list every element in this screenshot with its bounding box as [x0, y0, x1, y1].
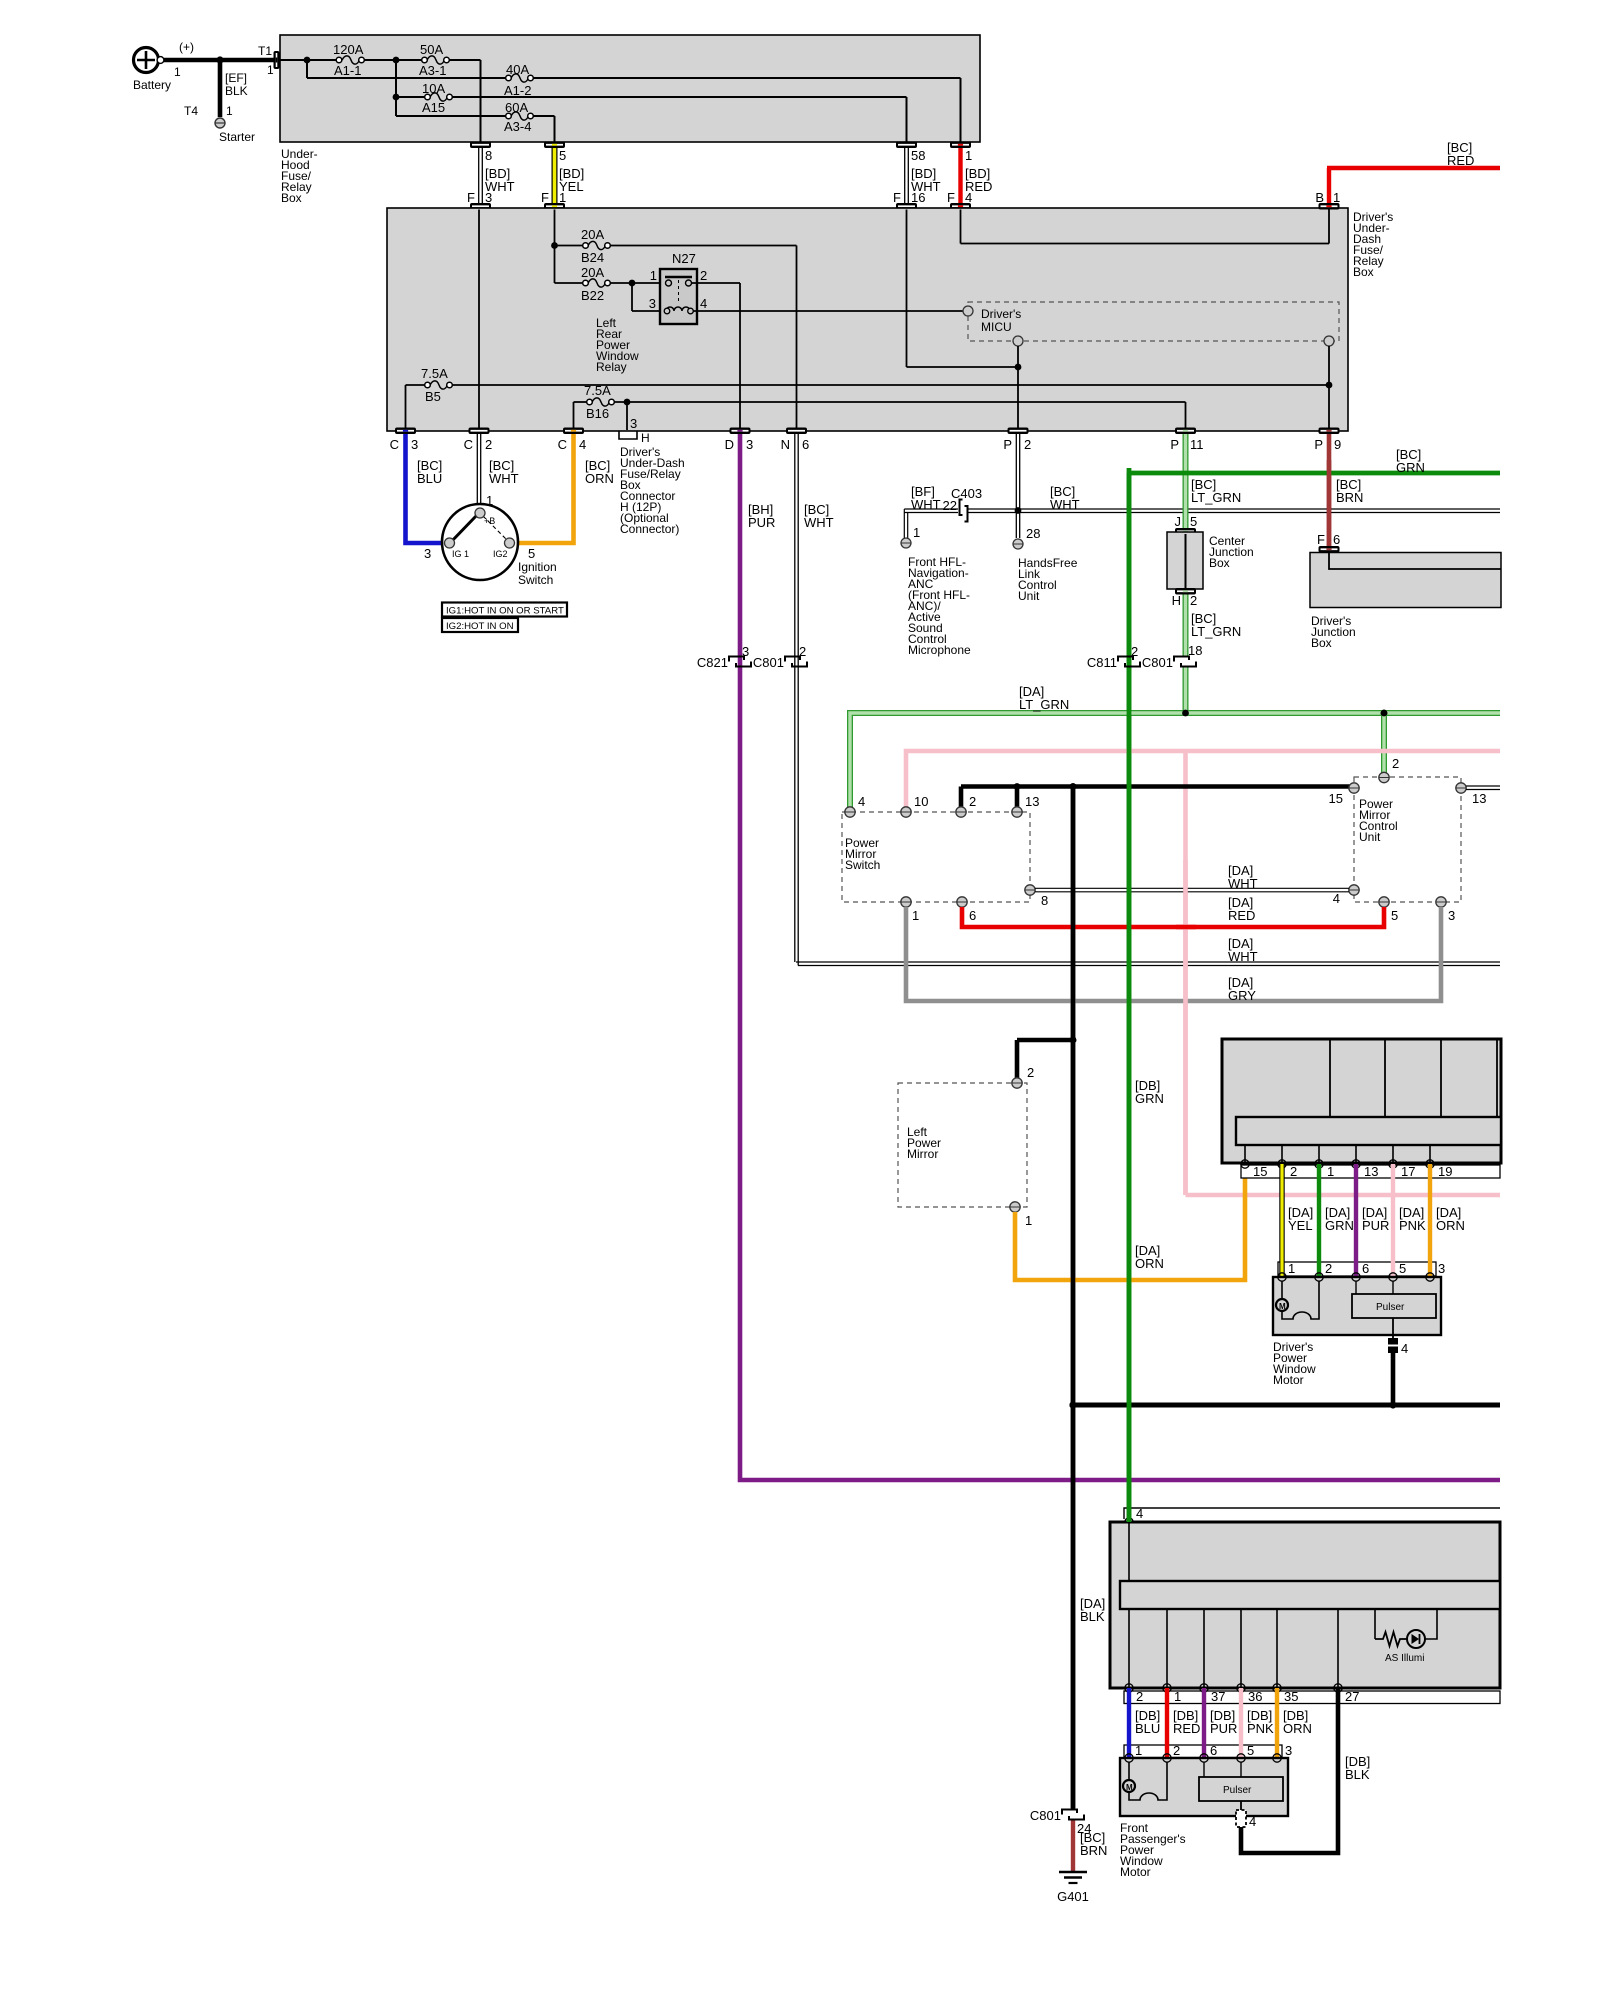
wire [DB] ORN door35 to motor3 [1277, 1688, 1312, 1758]
wire [BC] WHT to ignition +B [477, 434, 518, 508]
wire [DA] LT_GRN C801 to junction [1183, 667, 1189, 713]
wire [DA] LT_GRN horizontal [850, 684, 1500, 807]
svg-text:1: 1 [913, 525, 920, 540]
driver's door inner connector bar [1236, 1117, 1501, 1164]
svg-text:PUR: PUR [1362, 1218, 1389, 1233]
wire [DA] BLK label [1080, 1596, 1105, 1624]
svg-text:2: 2 [1325, 1261, 1332, 1276]
node B16-H3 junction [624, 399, 631, 406]
svg-text:C801: C801 [753, 655, 784, 670]
pin 2 relay [686, 280, 692, 286]
wire [DB] RED door1 to motor2 [1167, 1688, 1200, 1758]
wire BLK ground bus horizontal [1073, 1403, 1500, 1408]
connector 1 under-hood box bottom [950, 142, 971, 149]
wire main feed row y=60 [280, 60, 481, 143]
svg-text:2: 2 [1190, 593, 1197, 608]
pin 3 passenger motor [1273, 1754, 1281, 1762]
connector H optional 12P pin 3 [619, 416, 685, 536]
svg-text:P: P [1170, 437, 1179, 452]
svg-text:2: 2 [1136, 1689, 1143, 1704]
pin IG1 ignition [445, 538, 455, 548]
wire [BD] WHT 8 to F3 [467, 148, 515, 205]
pin 35 passenger door [1273, 1684, 1299, 1704]
svg-text:10: 10 [914, 794, 928, 809]
svg-text:H: H [1172, 593, 1181, 608]
svg-text:1: 1 [1288, 1261, 1295, 1276]
svg-text:LT_GRN: LT_GRN [1019, 697, 1069, 712]
connector 4 passenger motor dashed [1236, 1801, 1256, 1829]
node P2 wht junction [1015, 507, 1022, 514]
node B24 feed junction [551, 242, 558, 249]
svg-text:6: 6 [802, 437, 809, 452]
motor M symbol driver [1276, 1281, 1319, 1319]
Front passenger door harness box [1110, 1522, 1500, 1688]
pin 3 relay [664, 308, 670, 314]
svg-text:Box: Box [1311, 636, 1332, 650]
fuse 60A A3-4 [504, 100, 533, 134]
svg-text:WHT: WHT [804, 515, 834, 530]
driver's motor connector pin numbers [1288, 1261, 1445, 1276]
Driver's Junction Box [1310, 553, 1501, 651]
wire [BC] WHT C403 to right [968, 509, 1500, 513]
svg-text:F: F [467, 190, 475, 205]
svg-text:M: M [1126, 1783, 1133, 1792]
wire [BC] BRN P9 to F6 [1329, 434, 1363, 546]
Driver's door harness box [1222, 1039, 1501, 1163]
svg-text:YEL: YEL [1288, 1218, 1313, 1233]
svg-text:35: 35 [1284, 1689, 1298, 1704]
svg-text:4: 4 [965, 190, 972, 205]
svg-text:H: H [641, 431, 650, 445]
pin 5 driver's motor [1389, 1273, 1397, 1281]
svg-text:C: C [390, 437, 399, 452]
svg-text:MICU: MICU [981, 320, 1012, 334]
pin 1 driver's door [1315, 1160, 1334, 1179]
svg-text:15: 15 [1329, 791, 1343, 806]
pin 15 control unit [1329, 783, 1360, 806]
svg-text:6: 6 [1362, 1261, 1369, 1276]
svg-text:1: 1 [1333, 190, 1340, 205]
svg-text:3: 3 [1438, 1261, 1445, 1276]
svg-text:1: 1 [912, 908, 919, 923]
motor M symbol passenger [1123, 1762, 1167, 1800]
connector 4 driver's motor [1387, 1318, 1408, 1356]
pin 2 left mirror [1012, 1065, 1034, 1088]
pin 2 passenger door [1125, 1684, 1143, 1704]
svg-text:13: 13 [1364, 1164, 1378, 1179]
wire [DA] GRN door1 to motor2 [1319, 1164, 1354, 1277]
svg-text:22: 22 [943, 498, 957, 513]
svg-text:4: 4 [858, 794, 865, 809]
pin 4 control unit [1333, 885, 1359, 906]
svg-text:5: 5 [1247, 1743, 1254, 1758]
svg-text:2: 2 [1027, 1065, 1034, 1080]
fuse 50A A3-1 [419, 42, 449, 78]
svg-text:1: 1 [174, 65, 181, 79]
wire [BC] BRN to ground [1073, 1820, 1107, 1871]
pin 3 control unit [1436, 897, 1455, 923]
svg-text:A15: A15 [422, 100, 445, 115]
svg-text:13: 13 [1472, 791, 1486, 806]
svg-text:5: 5 [1399, 1261, 1406, 1276]
svg-text:BLK: BLK [225, 84, 248, 98]
passenger door label strip top [1124, 1506, 1500, 1521]
svg-text:C801: C801 [1142, 655, 1173, 670]
connector F3 [470, 203, 491, 210]
Power Mirror Switch dashed box [842, 812, 1030, 902]
wire F1 to fuse B24/B22 feed [554, 210, 556, 284]
svg-text:Mirror: Mirror [907, 1147, 938, 1161]
Power Mirror Control Unit dashed box [1354, 777, 1461, 902]
svg-text:11: 11 [1190, 437, 1204, 452]
svg-text:7.5A: 7.5A [584, 383, 611, 398]
pin 1 microphone [901, 525, 920, 548]
pulser driver [1352, 1281, 1436, 1318]
connector J5 [1175, 514, 1198, 535]
svg-text:P: P [1314, 437, 1323, 452]
pin 10 mirror switch [901, 794, 929, 817]
pin 37 passenger door [1200, 1684, 1226, 1704]
connector 8 under-hood box bottom [470, 142, 491, 149]
svg-text:16: 16 [911, 190, 925, 205]
pin 1 left mirror [1010, 1202, 1032, 1228]
Front Passenger's Power Window Motor box [1120, 1758, 1288, 1879]
node BLK junction overlay 1040 [1070, 1037, 1077, 1044]
svg-text:5: 5 [1190, 514, 1197, 529]
svg-text:RED: RED [1447, 153, 1474, 168]
svg-text:40A: 40A [506, 62, 529, 77]
node B5-P9 junction [1326, 382, 1333, 389]
svg-text:N27: N27 [672, 251, 696, 266]
wire driver's motor 4 to ground bus [1391, 1353, 1396, 1405]
svg-text:IG2: IG2 [493, 549, 508, 559]
svg-text:1: 1 [1327, 1164, 1334, 1179]
wire LT_GRN to power mirror control unit pin 2 [1384, 710, 1399, 773]
svg-text:ORN: ORN [1135, 1256, 1164, 1271]
wire [BC] ORN to ignition IG2 [515, 434, 614, 561]
svg-text:LT_GRN: LT_GRN [1191, 624, 1241, 639]
connector T1 [258, 44, 280, 77]
svg-text:17: 17 [1401, 1164, 1415, 1179]
svg-text:(+): (+) [179, 40, 194, 54]
connector F4 [950, 203, 971, 210]
svg-text:24: 24 [1077, 1821, 1091, 1836]
svg-text:GRN: GRN [1396, 460, 1425, 475]
svg-text:WHT: WHT [911, 497, 941, 512]
svg-text:RED: RED [1228, 908, 1255, 923]
wire [DA] WHT horizontal to right edge [796, 936, 1500, 966]
node 120A-50A junction [393, 57, 400, 64]
svg-text:4: 4 [579, 437, 586, 452]
svg-text:A3-1: A3-1 [419, 63, 446, 78]
svg-text:[EF]: [EF] [225, 71, 247, 85]
node BLK junction overlay 1405 [1069, 1401, 1076, 1408]
svg-text:2: 2 [1173, 1743, 1180, 1758]
svg-text:Motor: Motor [1120, 1865, 1151, 1879]
node LT_GRN junction at 1185 [1182, 710, 1189, 717]
node main-120A junction [304, 57, 311, 64]
fuse 7.5A B16 [584, 383, 614, 421]
ignition switch [442, 504, 557, 587]
passenger door inner connector bar [1120, 1581, 1500, 1688]
note IG2 hot in on [442, 618, 518, 632]
wire BLK main vertical [1071, 787, 1076, 1811]
svg-text:PNK: PNK [1247, 1721, 1274, 1736]
wire [DA] ORN door19 to motor3 [1430, 1164, 1465, 1277]
svg-text:Box: Box [1353, 265, 1374, 279]
svg-text:2: 2 [1290, 1164, 1297, 1179]
svg-text:BLK: BLK [1345, 1767, 1370, 1782]
pin 2 driver's motor [1315, 1273, 1323, 1281]
svg-text:D: D [725, 437, 734, 452]
pin 1 mirror switch [901, 897, 919, 923]
svg-text:Switch: Switch [518, 573, 553, 587]
fuse 10A A15 [422, 81, 452, 115]
svg-text:B: B [1315, 190, 1324, 205]
svg-text:4: 4 [1249, 1814, 1256, 1829]
svg-text:Starter: Starter [219, 130, 255, 144]
svg-text:3: 3 [1285, 1743, 1292, 1758]
pin 6 driver's motor [1352, 1273, 1360, 1281]
pin 2 passenger motor [1163, 1754, 1171, 1762]
driver's door pin label strip [1241, 1165, 1500, 1178]
passenger motor connector pin numbers [1135, 1743, 1292, 1758]
connector C801 pin 2 [753, 644, 807, 670]
connector C811 pin 2 [1087, 644, 1140, 670]
pin 2 control unit [1379, 772, 1389, 782]
pin 19 driver's door [1426, 1160, 1453, 1179]
pin 36 passenger door [1237, 1684, 1263, 1704]
svg-text:6: 6 [1210, 1743, 1217, 1758]
wire [BD] RED 1 to F4 [947, 148, 992, 205]
pin 5 passenger motor [1237, 1754, 1245, 1762]
connector C801 pin 18 [1142, 643, 1203, 670]
connector F6 [1317, 532, 1340, 553]
wire relay pin2 to D3 [692, 283, 741, 428]
svg-text:9: 9 [1334, 437, 1341, 452]
connector F1 [544, 203, 565, 210]
svg-text:ORN: ORN [585, 471, 614, 486]
wire [BC] LT_GRN P11 to J5 [1186, 434, 1242, 528]
svg-text:4: 4 [1401, 1341, 1408, 1356]
pin 13 mirror switch [1012, 794, 1040, 817]
wire [DB] BLK door27 to pulser4 [1241, 1688, 1370, 1853]
connector P2 [1003, 428, 1031, 453]
HandsFree Link Control Unit label [1018, 556, 1078, 603]
svg-text:20A: 20A [581, 265, 604, 280]
pin 2 mirror switch [956, 794, 976, 817]
connector 5 under-hood box bottom [544, 142, 565, 149]
node ground bus motor4 [1389, 1401, 1396, 1408]
svg-text:1: 1 [226, 104, 233, 118]
pin MICU bottom-left [1013, 336, 1023, 346]
node BLK left mirror junction [1070, 1037, 1077, 1044]
svg-text:PNK: PNK [1399, 1218, 1426, 1233]
svg-text:Connector): Connector) [620, 522, 679, 536]
svg-text:J: J [1175, 514, 1182, 529]
connector C2 [464, 428, 493, 453]
svg-text:1: 1 [1174, 1689, 1181, 1704]
wire [DA] RED overlay at pink crossing [1176, 925, 1196, 930]
svg-text:28: 28 [1026, 526, 1040, 541]
svg-text:ORN: ORN [1283, 1721, 1312, 1736]
svg-text:GRN: GRN [1325, 1218, 1354, 1233]
svg-text:2: 2 [700, 268, 707, 283]
svg-text:2: 2 [1392, 756, 1399, 771]
svg-text:6: 6 [1333, 532, 1340, 547]
svg-text:GRY: GRY [1228, 988, 1256, 1003]
svg-text:A3-4: A3-4 [504, 119, 531, 134]
passenger door pin label strip [1124, 1691, 1500, 1704]
wire 20A B22 row [555, 282, 667, 284]
svg-text:F: F [947, 190, 955, 205]
svg-text:ORN: ORN [1436, 1218, 1465, 1233]
svg-text:Box: Box [1209, 556, 1230, 570]
AS Illumi lamp circuit [1375, 1609, 1437, 1664]
wire F4 to B1 inside box [961, 210, 1330, 244]
svg-text:3: 3 [1448, 908, 1455, 923]
svg-text:C: C [558, 437, 567, 452]
svg-text:BLU: BLU [1135, 1721, 1160, 1736]
wire 7.5A B16 row [574, 402, 1186, 430]
svg-text:F: F [1317, 532, 1325, 547]
svg-text:B24: B24 [581, 250, 604, 265]
svg-text:1: 1 [1025, 1213, 1032, 1228]
Center Junction Box [1167, 532, 1254, 589]
svg-text:20A: 20A [581, 227, 604, 242]
svg-text:PUR: PUR [1210, 1721, 1237, 1736]
wire [DA] RED switch6 to unit5 [962, 895, 1384, 927]
svg-text:Switch: Switch [845, 858, 880, 872]
svg-text:WHT: WHT [489, 471, 519, 486]
wire [DA] PUR door13 to motor6 [1356, 1164, 1389, 1277]
pin 17 driver's door [1389, 1160, 1416, 1179]
wire GRN vertical overlay [1127, 468, 1132, 1522]
svg-text:Motor: Motor [1273, 1373, 1304, 1387]
pin 6 passenger motor [1200, 1754, 1208, 1762]
wire F3 to C2 inside box [478, 210, 480, 429]
svg-text:RED: RED [1173, 1721, 1200, 1736]
pin 1 relay [666, 280, 672, 286]
pin 13 control unit [1456, 783, 1487, 806]
svg-text:C801: C801 [1030, 1808, 1061, 1823]
wire [BC] LT_GRN H2 down [1186, 595, 1242, 657]
svg-text:6: 6 [969, 908, 976, 923]
svg-text:Unit: Unit [1018, 589, 1040, 603]
wire WHT control unit pin13 stub [1466, 786, 1500, 790]
pin 4 passenger door [1125, 1518, 1133, 1526]
node battery junction [216, 56, 223, 63]
wire [DA] WHT switch8 to unit4 [1035, 863, 1349, 892]
fuse 20A B22 [581, 265, 610, 303]
wire [BH] PUR window feed [740, 434, 1500, 1480]
svg-text:1: 1 [650, 268, 657, 283]
starter [215, 118, 255, 144]
connector B1 [1315, 190, 1340, 210]
pin MICU left [963, 306, 973, 316]
svg-text:2: 2 [1024, 437, 1031, 452]
svg-text:F: F [893, 190, 901, 205]
svg-text:M: M [1279, 1302, 1286, 1311]
svg-text:N: N [781, 437, 790, 452]
wire [BC] RED battery feed [1327, 140, 1500, 203]
node LT_GRN junction overlay 1384 [1381, 710, 1388, 717]
Driver's Power Window Motor box [1273, 1277, 1441, 1387]
svg-text:Pulser: Pulser [1223, 1785, 1252, 1796]
wire [DB] PUR door37 to motor6 [1204, 1688, 1237, 1758]
svg-text:8: 8 [485, 148, 492, 163]
pin 1 passenger motor [1125, 1754, 1133, 1762]
connector N6 [781, 428, 810, 453]
pin 4 relay [688, 308, 694, 314]
svg-text:50A: 50A [420, 42, 443, 57]
svg-text:13: 13 [1025, 794, 1039, 809]
fuse 20A B24 [581, 227, 610, 265]
svg-text:T4: T4 [184, 104, 198, 118]
svg-text:27: 27 [1345, 1689, 1359, 1704]
fuse 40A A1-2 [504, 62, 533, 98]
pin 4 mirror switch [845, 794, 865, 817]
wire PNK vertical overlay [1183, 860, 1188, 1195]
svg-text:5: 5 [559, 148, 566, 163]
pin 1 passenger door [1163, 1684, 1181, 1704]
svg-text:10A: 10A [422, 81, 445, 96]
Driver's MICU dashed box [968, 302, 1339, 341]
svg-text:F: F [541, 190, 549, 205]
wire [BF] WHT microphone feed [904, 484, 958, 538]
connector P9 [1314, 428, 1341, 453]
pin 13 driver's door [1352, 1160, 1379, 1179]
pin 15 driver's door [1241, 1160, 1268, 1179]
wire [DB] GRN label [1135, 1078, 1164, 1106]
wire [DA] PNK door17 to motor5 [1393, 1164, 1426, 1277]
svg-text:Pulser: Pulser [1376, 1302, 1405, 1313]
svg-text:PUR: PUR [748, 515, 775, 530]
svg-text:B22: B22 [581, 288, 604, 303]
svg-text:37: 37 [1211, 1689, 1225, 1704]
pin 2 driver's door [1278, 1160, 1297, 1179]
Left Power Mirror dashed box [898, 1083, 1027, 1207]
pin MICU bottom-right [1324, 336, 1334, 346]
svg-text:C: C [464, 437, 473, 452]
connector C4 [558, 428, 587, 453]
node LT_GRN junction at 1384 [1381, 710, 1388, 717]
svg-text:A1-1: A1-1 [334, 63, 361, 78]
svg-text:C821: C821 [697, 655, 728, 670]
fuse 7.5A B5 [421, 366, 452, 404]
svg-text:3: 3 [485, 190, 492, 205]
svg-text:G401: G401 [1057, 1889, 1089, 1904]
node BLK junction overlay 786 [1070, 783, 1077, 790]
svg-text:WHT: WHT [1228, 949, 1258, 964]
svg-text:2: 2 [485, 437, 492, 452]
svg-text:58: 58 [911, 148, 925, 163]
pulser passenger [1199, 1762, 1283, 1801]
connector H2 [1172, 588, 1198, 608]
fuse 120A A1-1 [333, 42, 364, 78]
svg-text:Relay: Relay [596, 360, 627, 374]
svg-text:4: 4 [700, 296, 707, 311]
svg-text:Battery: Battery [133, 78, 171, 92]
wire [DB] BLU door2 to motor1 [1129, 1688, 1160, 1758]
svg-text:IG2:HOT IN ON: IG2:HOT IN ON [446, 621, 514, 632]
svg-text:2: 2 [969, 794, 976, 809]
wire [DA] YEL door2 to motor1 [1282, 1164, 1313, 1277]
wire BLK mirror switch pin2 bus [961, 787, 1353, 808]
svg-text:Microphone: Microphone [908, 643, 971, 657]
node MICU-P2 junction [1015, 364, 1022, 371]
svg-text:3: 3 [630, 416, 637, 431]
